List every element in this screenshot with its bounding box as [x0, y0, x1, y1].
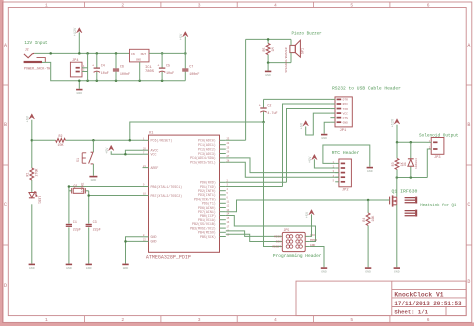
svg-text:KnockClock V1: KnockClock V1	[394, 291, 443, 298]
capacitor C4	[96, 53, 98, 67]
svg-text:GND: GND	[321, 270, 327, 274]
wire crystal pins	[69, 190, 72, 192]
wire header GND	[309, 247, 324, 268]
capacitor C6	[115, 53, 117, 68]
svg-text:Sheet: 1/1: Sheet: 1/1	[394, 308, 428, 315]
microcontroller U1 ATMEGA328P	[146, 131, 220, 260]
svg-text:+: +	[259, 105, 261, 109]
junction dot +5V R2	[31, 139, 34, 142]
svg-text:PC1(ADC1): PC1(ADC1)	[198, 143, 216, 147]
svg-text:PB7(XTAL2/TOSC2): PB7(XTAL2/TOSC2)	[151, 194, 183, 198]
capacitor C2	[263, 99, 265, 107]
wire speaker pins	[290, 39, 292, 45]
wire PD7 to Q1 gate	[226, 200, 390, 212]
label RS232 to USB Cable Header	[332, 86, 401, 92]
svg-text:4: 4	[274, 2, 277, 8]
wire RXD	[226, 181, 287, 183]
svg-text:100nF: 100nF	[120, 73, 130, 77]
wire XTAL1 net	[69, 186, 143, 188]
svg-text:D: D	[467, 279, 470, 285]
LED LED1	[29, 191, 41, 204]
svg-text:PC6(/RESET): PC6(/RESET)	[151, 139, 173, 143]
svg-text:22pF: 22pF	[73, 228, 81, 232]
svg-text:16MHz: 16MHz	[81, 182, 85, 192]
svg-text:C: C	[467, 202, 470, 208]
svg-text:5: 5	[350, 317, 353, 323]
wire buzzer top	[246, 38, 291, 40]
svg-text:CTS: CTS	[343, 117, 348, 120]
svg-text:100nF: 100nF	[189, 73, 199, 77]
junction dot C2 reset	[262, 121, 265, 124]
svg-text:C5: C5	[166, 65, 170, 69]
wire reset pullup rail	[32, 139, 56, 141]
label Q1 IRF630	[392, 188, 418, 194]
svg-text:10uF: 10uF	[101, 72, 109, 76]
svg-text:GND: GND	[123, 266, 129, 270]
svg-text:3: 3	[198, 317, 201, 323]
label Heatsink for Q1	[420, 203, 457, 208]
svg-text:1M: 1M	[271, 48, 275, 52]
svg-text:PB6(XTAL1/TOSC1): PB6(XTAL1/TOSC1)	[151, 185, 183, 189]
wire solenoid bottom rail	[397, 177, 428, 179]
wire reset to programming header	[264, 122, 283, 247]
svg-text:Q2: Q2	[74, 184, 78, 188]
wire DTR to C2	[264, 98, 331, 100]
ground below R5	[267, 63, 269, 71]
resistor R2	[56, 134, 66, 147]
svg-text:JP1: JP1	[340, 129, 348, 133]
svg-text:JP4: JP4	[72, 59, 78, 63]
capacitor C5	[161, 53, 163, 67]
svg-text:3: 3	[198, 2, 201, 8]
wire RXI to TXD	[283, 104, 331, 187]
svg-text:4: 4	[274, 317, 277, 323]
svg-text:+5V: +5V	[300, 122, 304, 129]
ground at RTC header	[367, 168, 373, 173]
svg-text:+5V: +5V	[180, 33, 184, 40]
svg-text:+: +	[92, 65, 94, 69]
svg-text:2: 2	[121, 2, 124, 8]
diode D1	[410, 142, 412, 158]
junction dots power rails	[78, 52, 187, 82]
svg-text:S1: S1	[76, 158, 80, 162]
svg-text:GND: GND	[66, 266, 72, 270]
ground below C1	[66, 264, 72, 269]
wire jack sleeve down to ground rail	[42, 62, 185, 80]
wire buzzer net down to PC0	[245, 39, 247, 140]
ground symbol JP1	[321, 135, 327, 140]
title block	[296, 281, 466, 316]
ground below LED1	[29, 264, 35, 269]
drawing frame outer band bottom	[0, 322, 474, 326]
svg-text:17/11/2013 20:51:53: 17/11/2013 20:51:53	[394, 300, 462, 307]
svg-text:TXO: TXO	[343, 108, 348, 111]
svg-text:1N4004: 1N4004	[415, 158, 418, 169]
svg-text:J2: J2	[25, 48, 29, 52]
svg-text:VCC: VCC	[151, 153, 157, 157]
resistor R4	[367, 200, 369, 213]
svg-text:+5V: +5V	[309, 156, 313, 163]
wire JP1 GND	[324, 122, 330, 134]
wire +12V arrow stem	[78, 32, 80, 53]
ground below programming header	[321, 268, 327, 273]
frame row ticks	[3, 85, 472, 245]
junction dot ground pins	[124, 240, 127, 243]
title date text	[394, 300, 462, 307]
svg-text:6: 6	[427, 317, 430, 323]
svg-text:+5V: +5V	[26, 115, 30, 122]
label Piezo Buzzer	[292, 32, 323, 37]
svg-text:ATMEGA328P_PDIP: ATMEGA328P_PDIP	[146, 254, 191, 260]
svg-text:GND: GND	[77, 91, 83, 95]
svg-text:C2: C2	[267, 104, 271, 108]
frame column numbers	[45, 2, 430, 323]
svg-text:10K: 10K	[371, 216, 375, 222]
svg-text:+12V: +12V	[392, 118, 396, 127]
wire solenoid top rail	[397, 141, 427, 143]
wire JP1 pin stubs	[330, 99, 335, 122]
wire +5V arrow stem	[184, 37, 186, 54]
svg-text:GND: GND	[367, 169, 373, 173]
wire C3 string	[88, 191, 90, 224]
svg-text:R4: R4	[362, 218, 366, 222]
+12V supply arrow at power jack	[74, 27, 82, 36]
svg-text:PC4(ADC4/SDA): PC4(ADC4/SDA)	[190, 156, 216, 160]
label 12V Input	[24, 41, 48, 46]
wire PB4 to MISO	[226, 231, 282, 237]
svg-text:GND: GND	[265, 73, 271, 77]
svg-text:D: D	[4, 283, 7, 289]
svg-text:U1: U1	[149, 131, 154, 135]
U1 left pin stubs and names	[143, 138, 183, 244]
svg-text:B: B	[467, 122, 470, 128]
wire PB0 to MOSI	[226, 216, 316, 242]
svg-text:JP5: JP5	[284, 228, 290, 232]
svg-text:GND: GND	[86, 266, 92, 270]
power jack J2	[24, 48, 51, 72]
svg-text:GND: GND	[29, 266, 35, 270]
wire JP3 pin1	[427, 141, 432, 143]
label RTC Header	[332, 150, 360, 156]
capacitor C1	[66, 221, 81, 232]
svg-text:GND: GND	[321, 136, 327, 140]
wire SDA to RTC	[226, 158, 339, 173]
speaker SP1	[284, 40, 305, 72]
svg-text:PC5(ADC5/SCL): PC5(ADC5/SCL)	[190, 161, 216, 165]
wire S1 to ground	[92, 164, 94, 176]
capacitor C7	[184, 53, 186, 68]
wire VCC of JP1 to +5V	[306, 113, 331, 135]
ground below S1	[89, 177, 97, 182]
wire JP2 VCC	[314, 159, 335, 168]
svg-text:Piezo Buzzer: Piezo Buzzer	[292, 32, 323, 37]
svg-text:VCC: VCC	[343, 112, 348, 115]
solenoid header JP3	[429, 138, 444, 161]
svg-text:JP2: JP2	[342, 189, 348, 193]
svg-text:RESET: RESET	[272, 246, 281, 249]
svg-text:+: +	[157, 65, 159, 69]
svg-text:C3: C3	[93, 221, 97, 225]
svg-text:2: 2	[121, 317, 124, 323]
svg-text:5: 5	[350, 2, 353, 8]
svg-text:C4: C4	[101, 65, 105, 69]
wire reset net	[130, 122, 264, 140]
svg-text:MISO: MISO	[274, 236, 281, 239]
svg-text:10uF: 10uF	[166, 72, 174, 76]
svg-text:DTR: DTR	[343, 99, 348, 102]
svg-text:MOSI: MOSI	[310, 239, 317, 242]
wire IC1 output to +5V	[149, 52, 185, 54]
+5V supply arrow left	[26, 114, 34, 123]
wire PB5 to SCK	[226, 234, 282, 241]
svg-text:C1: C1	[73, 221, 77, 225]
wire buzzer bottom	[268, 62, 291, 64]
wire JP2 ground route	[323, 145, 370, 167]
wire programming header right stubs	[305, 236, 309, 246]
wire +5V down through R1 LED1 to ground	[31, 120, 33, 168]
svg-text:GND: GND	[343, 121, 348, 124]
resistor R3	[396, 142, 398, 158]
header JP1	[335, 97, 352, 133]
svg-text:JP3: JP3	[434, 156, 440, 160]
svg-text:GND: GND	[136, 59, 141, 62]
+12V supply arrow solenoid	[392, 118, 400, 127]
svg-text:RTC Header: RTC Header	[332, 150, 360, 156]
svg-text:POWER_JACK-TH: POWER_JACK-TH	[24, 68, 50, 72]
wire JP4 pins to rails	[82, 67, 88, 69]
ground below Q1	[394, 268, 400, 273]
svg-text:R2: R2	[59, 134, 63, 138]
title text KnockClock V1	[394, 291, 443, 298]
junction dot VCC	[124, 153, 127, 156]
svg-text:C7: C7	[189, 66, 193, 70]
heatsink symbol	[405, 197, 418, 217]
capacitor C3	[86, 221, 101, 232]
svg-text:GND: GND	[151, 240, 157, 244]
wire U1 ground pins	[126, 237, 143, 264]
svg-text:R3: R3	[391, 162, 395, 166]
svg-text:RS232 to USB Cable Header: RS232 to USB Cable Header	[332, 86, 401, 92]
wire PC0 to buzzer	[226, 139, 246, 141]
+5V supply arrow at VCC	[106, 145, 114, 154]
svg-text:6: 6	[427, 2, 430, 8]
svg-text:OUT: OUT	[141, 52, 147, 56]
ground symbol below power jack	[78, 81, 80, 89]
+5V supply arrow at regulator output	[180, 32, 188, 41]
svg-text:12V Input: 12V Input	[24, 41, 48, 46]
svg-text:Programming Header: Programming Header	[273, 253, 322, 259]
svg-text:GND: GND	[151, 235, 157, 239]
svg-text:C6: C6	[120, 66, 124, 70]
frame row letters	[4, 43, 470, 289]
svg-text:Heatsink for Q1: Heatsink for Q1	[420, 203, 457, 208]
+5V supply arrow at programming header	[306, 210, 314, 219]
svg-text:PC3(ADC3): PC3(ADC3)	[198, 152, 216, 156]
svg-text:IN: IN	[131, 52, 135, 56]
svg-text:PC2(ADC2): PC2(ADC2)	[198, 147, 216, 151]
wire +12V to solenoid rail	[396, 125, 398, 143]
junction dot Q1 gate R4	[367, 199, 370, 202]
wire header VCC to +5V	[309, 214, 311, 236]
svg-text:Q1 IRF630: Q1 IRF630	[392, 188, 418, 194]
svg-text:R1: R1	[26, 173, 30, 177]
resistor R1	[26, 168, 39, 180]
frame column ticks	[85, 2, 390, 322]
svg-text:AREF: AREF	[151, 166, 159, 170]
svg-text:+5V: +5V	[306, 211, 310, 218]
drawing frame outer band left	[0, 0, 4, 326]
svg-text:+12V: +12V	[74, 27, 78, 36]
svg-text:1: 1	[45, 2, 48, 8]
label Programming Header	[273, 253, 322, 259]
ground below U1	[122, 264, 128, 269]
svg-text:1: 1	[45, 317, 48, 323]
svg-text:4.7uF: 4.7uF	[267, 112, 277, 116]
svg-text:SP1: SP1	[302, 48, 306, 54]
junction dots on reset wire	[92, 139, 131, 142]
svg-text:270R: 270R	[35, 169, 39, 177]
junction dots solenoid rails	[396, 141, 413, 179]
crystal Q2 16MHz	[72, 182, 86, 193]
svg-text:SPEAKER/BUZZER: SPEAKER/BUZZER	[284, 47, 288, 72]
svg-text:22pF: 22pF	[93, 228, 101, 232]
wire JP2 pin stubs	[335, 163, 339, 181]
ground below C3	[86, 264, 92, 269]
voltage regulator IC1 7805	[130, 49, 155, 74]
header JP2	[333, 159, 352, 193]
svg-text:A: A	[4, 43, 7, 49]
U1 right pin stubs and names	[190, 138, 230, 239]
junction dots crystal	[68, 185, 90, 197]
wire JP3 pin2 to Q1 drain	[427, 149, 431, 178]
svg-text:+5V: +5V	[106, 147, 110, 154]
wire TXD	[226, 186, 283, 188]
junction dot jack	[49, 52, 52, 55]
svg-text:LED1: LED1	[37, 196, 41, 204]
switch S1	[92, 140, 94, 152]
svg-text:10K: 10K	[58, 143, 64, 147]
ground below R4	[365, 268, 371, 273]
battery header JP4	[70, 59, 85, 77]
svg-text:R5: R5	[262, 48, 266, 52]
svg-text:PB5(SCK): PB5(SCK)	[200, 235, 216, 239]
programming header JP5	[272, 228, 317, 251]
junction dots at R5	[267, 38, 270, 64]
svg-text:B: B	[4, 122, 7, 128]
svg-text:7805: 7805	[145, 70, 155, 74]
wire IC1 GND pin to ground rail	[139, 62, 141, 81]
svg-text:RXI: RXI	[343, 103, 348, 106]
svg-text:PC0(ADC0): PC0(ADC0)	[198, 139, 216, 143]
wire C1 string	[68, 187, 70, 224]
svg-text:GND: GND	[394, 270, 400, 274]
+5V supply arrow at JP1	[300, 121, 308, 130]
wire XTAL2 net	[89, 195, 143, 197]
+5V supply arrow at RTC header	[309, 154, 317, 163]
svg-text:A: A	[467, 43, 470, 49]
svg-text:D1: D1	[403, 162, 407, 166]
wire Q1 source to ground	[396, 205, 398, 268]
svg-text:SCK: SCK	[276, 241, 281, 244]
wire SCL to RTC	[226, 162, 339, 177]
svg-text:C: C	[4, 202, 7, 208]
title sheet text	[394, 308, 428, 315]
resistor R5	[267, 39, 269, 43]
wire VCC AVCC net	[111, 151, 142, 154]
svg-text:GND: GND	[365, 270, 371, 274]
wire jack tip to +12V rail	[34, 52, 129, 54]
svg-text:GND: GND	[91, 178, 97, 182]
label Solenoid Output	[419, 133, 459, 138]
wire Q1 gate stub	[388, 199, 389, 201]
transistor Q1 IRF630	[396, 178, 398, 197]
wire TXO to RXD	[287, 109, 331, 183]
